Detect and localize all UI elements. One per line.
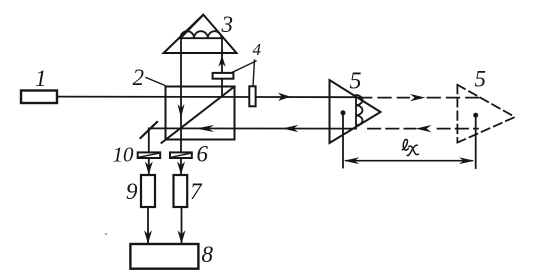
arrow: into electronics from 7 bbox=[178, 230, 186, 244]
electronics unit 8 bbox=[130, 244, 198, 269]
laser 1 bbox=[21, 91, 57, 104]
wire: beam down from mirror to polarizer 10 bbox=[148, 128, 150, 175]
wire: extension line from reference prism node bbox=[475, 117, 477, 169]
svg-text:6: 6 bbox=[197, 141, 209, 166]
arrow: dashed beam rightward bbox=[410, 94, 426, 101]
svg-text:1: 1 bbox=[35, 66, 47, 91]
arrow: upward into retroreflector bbox=[218, 55, 225, 66]
leader from label 4 to plate 4a bbox=[232, 61, 256, 73]
scan speck bbox=[105, 233, 107, 235]
polarizer 10 bbox=[138, 152, 161, 158]
svg-text:3: 3 bbox=[221, 12, 234, 37]
photodetector 9 bbox=[141, 175, 155, 207]
arrow: dashed beam leftward bbox=[416, 125, 432, 132]
arrow: dimension left end bbox=[344, 157, 360, 164]
prism 3 internal ray from apex bbox=[181, 16, 203, 38]
beamsplitter 2 bbox=[166, 87, 235, 140]
svg-text:10: 10 bbox=[113, 143, 135, 167]
leader from label 2 to splitter corner bbox=[146, 78, 165, 86]
svg-text:2: 2 bbox=[133, 65, 145, 90]
polarizer 6 diagonal bbox=[172, 153, 191, 157]
wire: photodetector 9 to electronics bbox=[147, 207, 149, 244]
mirror (lower left of splitter) bbox=[141, 122, 158, 138]
label l_x : subscript x bbox=[407, 145, 418, 155]
svg-text:5: 5 bbox=[350, 69, 362, 95]
wire: vertical beam splitter to retroreflector (right leg) bbox=[221, 38, 223, 96]
polarizer 4b (vertical, on main beam) bbox=[249, 86, 255, 106]
node: reference point of reference prism bbox=[473, 113, 478, 118]
node: reference point of measuring prism bbox=[341, 110, 346, 115]
wire: vertical beam retroreflector to polarizer 6 (left leg) bbox=[180, 38, 182, 175]
dimension line l_x bbox=[346, 160, 472, 162]
wire: photodetector 7 to electronics bbox=[181, 207, 183, 244]
svg-text:7: 7 bbox=[190, 179, 203, 204]
leader from label 4 to plate 4b bbox=[253, 60, 255, 86]
arrow: forward beam rightward bbox=[278, 93, 291, 101]
arrow: into photodetector 9 bbox=[145, 162, 153, 175]
prism 3 coil line with humps bbox=[180, 31, 221, 38]
svg-text:4: 4 bbox=[253, 40, 262, 59]
prism 5 coil line with humps bbox=[356, 95, 362, 126]
arrow: into electronics from 9 bbox=[144, 230, 152, 244]
wire: return beam from mirror to measuring prism bbox=[149, 127, 356, 129]
polarizer 6 bbox=[170, 152, 192, 158]
svg-text:5: 5 bbox=[475, 67, 487, 92]
arrow: return beam leftward (inside splitter) bbox=[196, 125, 214, 132]
measuring retroreflector 5 (solid) bbox=[330, 80, 381, 143]
svg-text:8: 8 bbox=[202, 242, 214, 267]
wire: top dashed beam to reference prism bbox=[359, 97, 479, 99]
photodetector 7 bbox=[174, 175, 188, 207]
arrow: downward inside splitter bbox=[178, 104, 185, 118]
compensating plate 4a (horizontal) bbox=[213, 73, 234, 79]
beamsplitter diagonal bbox=[162, 87, 235, 143]
polarizer 10 diagonal bbox=[139, 153, 159, 157]
svg-text:9: 9 bbox=[126, 179, 138, 204]
reference retroreflector 5 (dashed) bbox=[457, 85, 515, 143]
wire: main beam laser to measuring prism bbox=[57, 96, 355, 99]
arrow: dimension right end bbox=[459, 157, 475, 164]
arrow: return beam leftward (outside splitter) bbox=[282, 125, 298, 132]
wire: bottom dashed beam from reference prism bbox=[368, 128, 478, 130]
label l_x : script ell bbox=[402, 139, 408, 150]
retroreflector prism 3 bbox=[164, 15, 237, 53]
arrow: into photodetector 7 bbox=[177, 162, 185, 175]
wire: extension line from measuring prism node bbox=[342, 114, 344, 168]
